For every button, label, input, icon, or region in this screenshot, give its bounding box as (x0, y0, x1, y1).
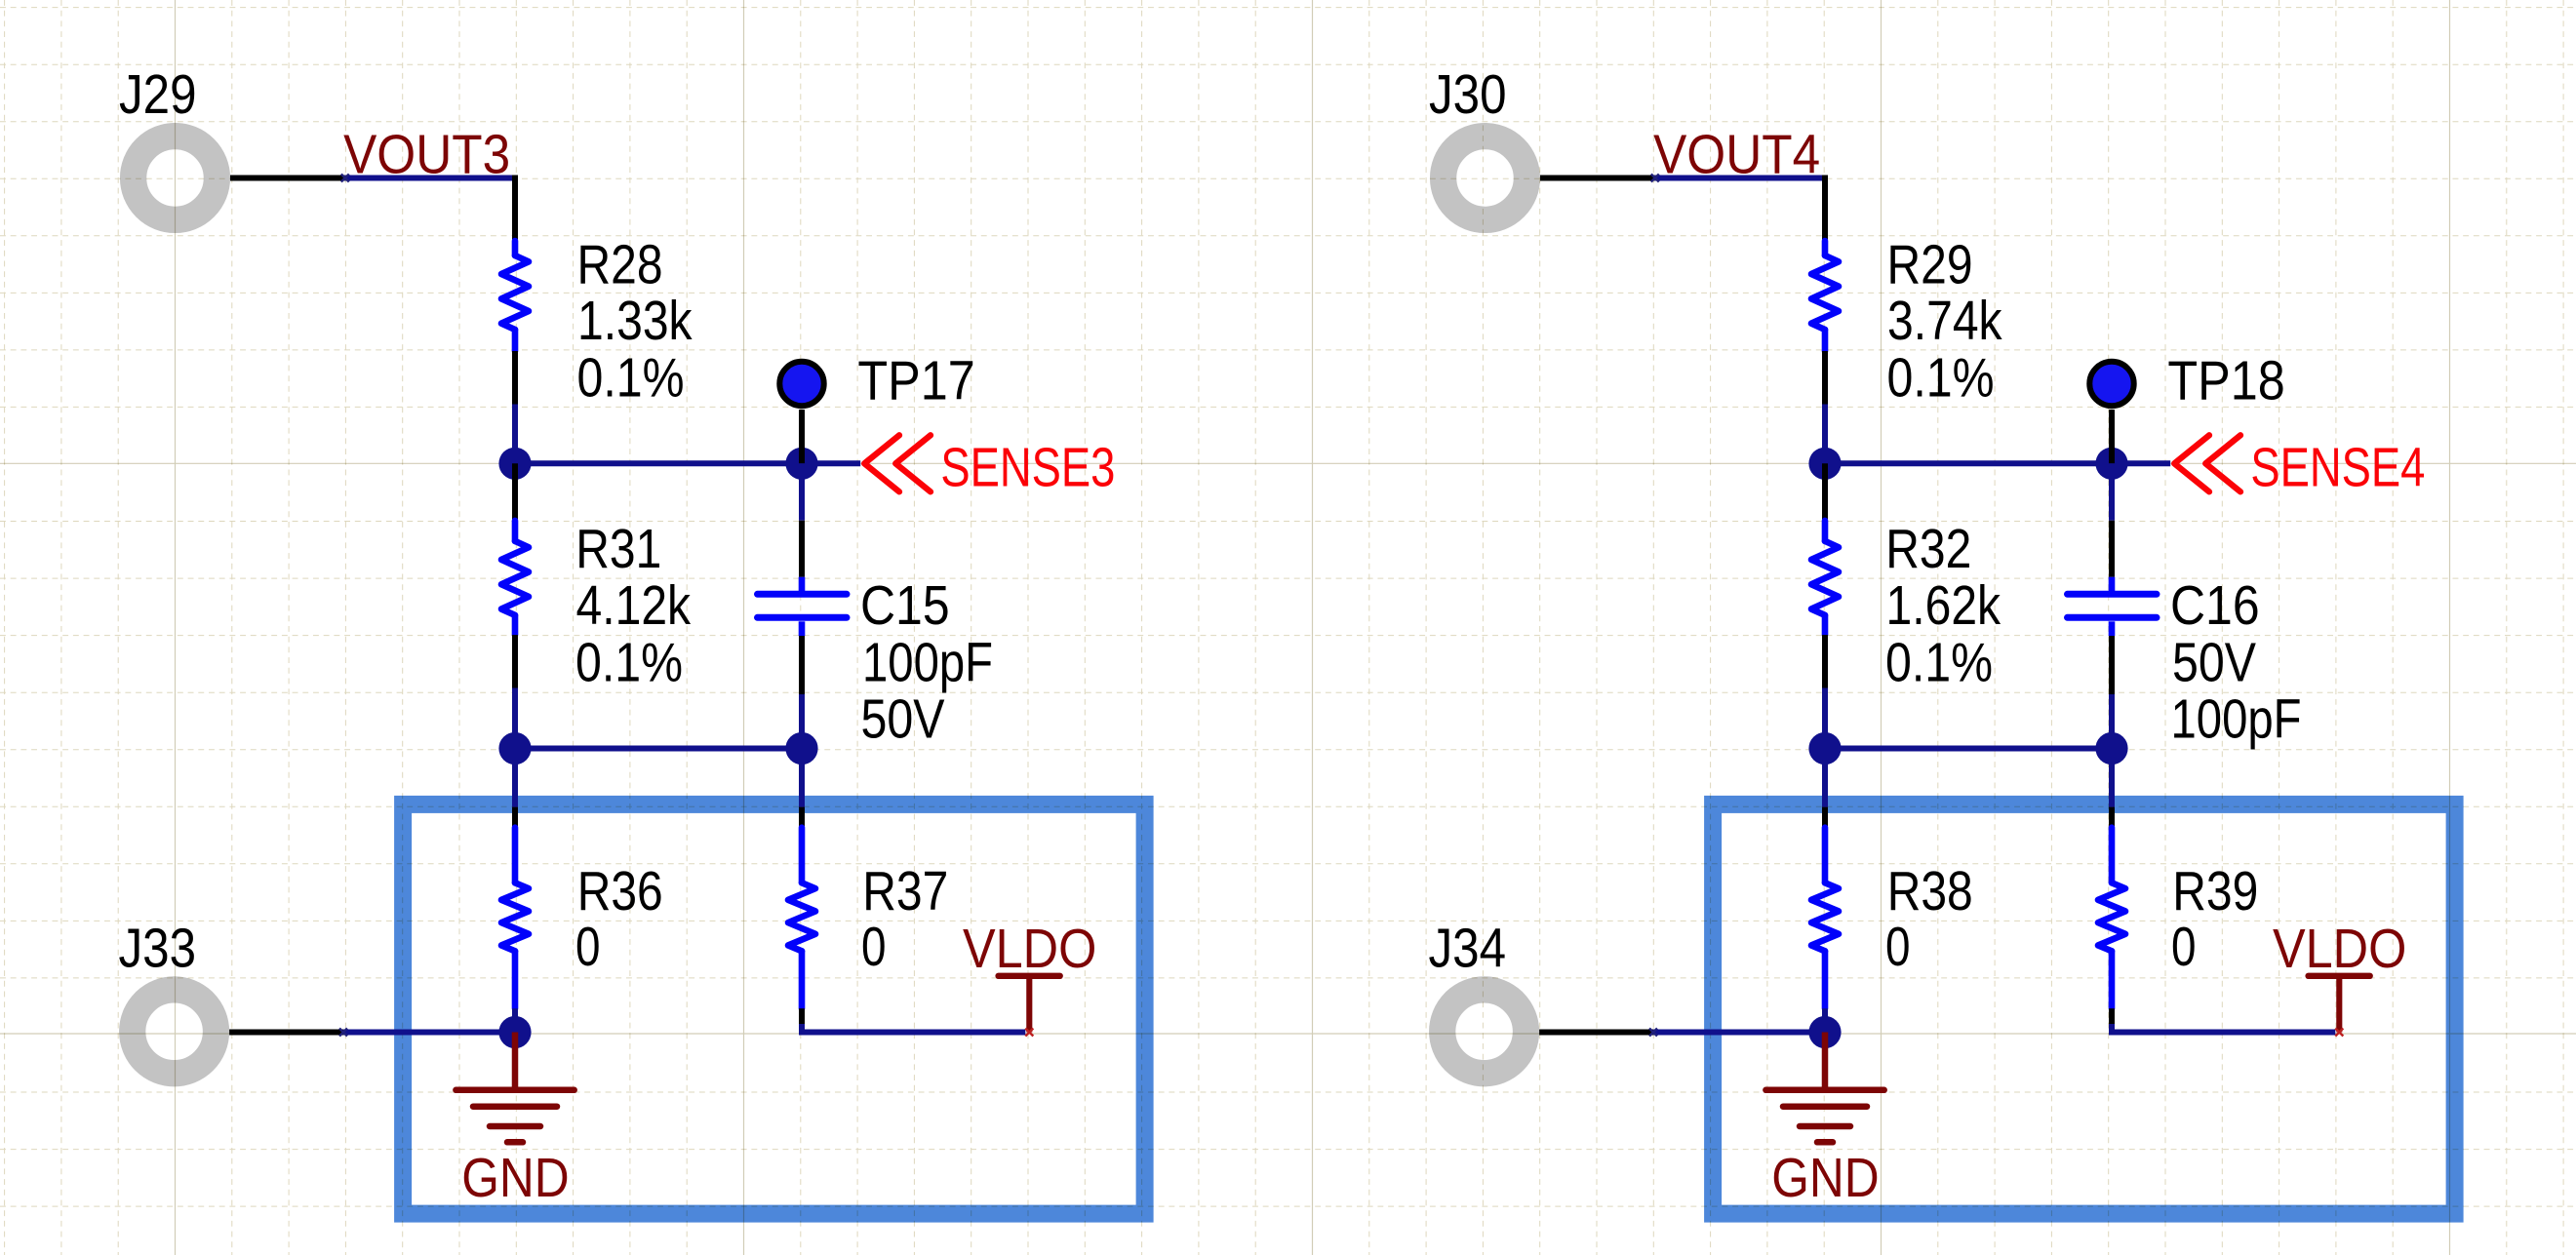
svg-text:100pF: 100pF (862, 632, 993, 693)
svg-text:100pF: 100pF (2171, 687, 2302, 749)
wire net VOUT3 (345, 176, 515, 181)
svg-text:R29: R29 (1887, 234, 1973, 295)
svg-text:1.33k: 1.33k (577, 290, 693, 351)
resistor R39 lead bottom (2109, 951, 2116, 1008)
svg-text:R36: R36 (577, 860, 663, 922)
ground GND bar2 (1783, 1103, 1867, 1110)
resistor R32 lead top (1822, 521, 1829, 541)
test point TP17 (779, 362, 823, 406)
resistor R36 body (501, 882, 529, 951)
connector J34 (1443, 990, 1526, 1074)
wire (1822, 749, 1828, 807)
svg-text:4.12k: 4.12k (576, 574, 692, 636)
wire lower row (1825, 746, 2112, 752)
node junction ground (498, 1016, 531, 1048)
svg-text:GND: GND (1771, 1147, 1879, 1208)
svg-text:TP17: TP17 (857, 350, 974, 412)
wire (799, 463, 805, 521)
power port VLDO bar (999, 973, 1060, 979)
ground GND bar2 (473, 1103, 557, 1110)
resistor R37 lead bottom (799, 951, 806, 1008)
power port VLDO stem (1026, 978, 1032, 1033)
svg-text:0.1%: 0.1% (575, 631, 683, 692)
resistor R37 pin bottom (799, 1008, 805, 1024)
svg-text:C16: C16 (2170, 574, 2260, 636)
ground GND bar4 (507, 1139, 523, 1146)
capacitor C15 plate bottom (758, 614, 848, 621)
resistor R31 pin bottom (512, 635, 518, 688)
resistor R39 lead top (2109, 828, 2116, 883)
pin-end marker (341, 175, 349, 182)
resistor R37 pin top (799, 807, 805, 828)
wire to VLDO (2112, 1024, 2335, 1033)
svg-text:J29: J29 (119, 63, 197, 125)
resistor R32 pin top (1822, 463, 1828, 521)
resistor R37 body (788, 882, 815, 951)
capacitor C15 pin top (799, 521, 805, 577)
connector J30 (1444, 137, 1527, 220)
node junction B2 (2095, 732, 2127, 765)
ground GND stem (512, 1033, 519, 1090)
svg-text:J34: J34 (1429, 918, 1507, 979)
resistor R32 body (1811, 541, 1839, 615)
blanket box power block right (1713, 804, 2455, 1214)
wire corner at VOUT3 (512, 176, 518, 242)
capacitor C16 lead bottom (2109, 621, 2116, 636)
resistor R39 body (2098, 882, 2125, 951)
wire (2109, 694, 2115, 749)
svg-text:SENSE3: SENSE3 (940, 437, 1115, 498)
svg-text:VLDO: VLDO (963, 918, 1096, 979)
svg-text:50V: 50V (861, 687, 945, 749)
resistor R39 pin top (2109, 807, 2115, 828)
capacitor C15 pin bottom (799, 636, 805, 694)
pin of J34 (1539, 1030, 1653, 1036)
svg-text:TP18: TP18 (2167, 350, 2284, 412)
wire (512, 1008, 518, 1032)
connector J29 (134, 137, 218, 220)
svg-text:R38: R38 (1887, 860, 1973, 922)
ground GND bar3 (1800, 1123, 1850, 1130)
port SENSE3 arrow (864, 435, 931, 491)
svg-text:0.1%: 0.1% (1885, 631, 1993, 692)
svg-text:VLDO: VLDO (2273, 918, 2406, 979)
resistor R38 body (1811, 882, 1839, 951)
power port VLDO bar (2309, 973, 2370, 979)
power port VLDO stem (2336, 978, 2342, 1033)
resistor R28 body (501, 255, 529, 330)
capacitor C16 pin bottom (2109, 636, 2115, 694)
capacitor C16 lead top (2109, 577, 2116, 592)
pin-end marker (2335, 1029, 2343, 1037)
svg-text:0: 0 (1885, 916, 1911, 977)
wire (2109, 463, 2115, 521)
wire net VOUT4 (1655, 176, 1825, 181)
node junction B2 (785, 732, 817, 765)
capacitor C15 lead top (799, 577, 806, 592)
resistor R28 pin bottom (512, 351, 518, 405)
svg-text:J30: J30 (1429, 63, 1507, 125)
pin of J30 (1540, 176, 1655, 181)
svg-text:R37: R37 (862, 860, 948, 922)
test point TP17 pin (799, 410, 805, 463)
svg-text:GND: GND (461, 1147, 569, 1208)
port SENSE4 arrow (2174, 435, 2240, 491)
resistor R29 pin bottom (1822, 351, 1828, 405)
wire lower row (515, 746, 802, 752)
pin-end marker (1651, 175, 1659, 182)
resistor R31 lead top (512, 521, 519, 541)
wire to ground node (1653, 1030, 1825, 1036)
ground GND bar1 (1765, 1087, 1883, 1094)
resistor R36 lead top (512, 828, 519, 883)
resistor R31 lead bottom (512, 615, 519, 635)
svg-text:0.1%: 0.1% (1887, 347, 1995, 409)
resistor R32 pin bottom (1822, 635, 1828, 688)
svg-text:J33: J33 (119, 918, 197, 979)
node junction B1 (785, 448, 817, 480)
test point TP18 (2089, 362, 2133, 406)
node junction A1 (498, 448, 531, 480)
resistor R29 body (1811, 255, 1839, 330)
resistor R38 lead top (1822, 828, 1829, 883)
pin of J29 (230, 176, 345, 181)
resistor R36 lead bottom (512, 951, 519, 1008)
svg-text:0: 0 (2171, 916, 2197, 977)
svg-text:0: 0 (575, 916, 601, 977)
wire to ground node (343, 1030, 515, 1036)
svg-text:SENSE4: SENSE4 (2250, 437, 2425, 498)
svg-text:R28: R28 (577, 234, 663, 295)
svg-text:R32: R32 (1885, 518, 1971, 579)
node junction A2 (1808, 732, 1841, 765)
resistor R29 lead top (1822, 241, 1829, 255)
test point TP18 pin (2109, 410, 2115, 463)
resistor R28 lead top (512, 241, 519, 255)
node junction A2 (498, 732, 531, 765)
ground GND stem (1822, 1033, 1829, 1090)
wire (2109, 749, 2115, 807)
wire (1822, 405, 1828, 464)
svg-text:3.74k: 3.74k (1887, 290, 2002, 351)
resistor R36 pin top (512, 807, 518, 828)
pin-end marker (1649, 1029, 1657, 1037)
resistor R28 lead bottom (512, 330, 519, 351)
svg-text:VOUT3: VOUT3 (343, 124, 510, 185)
wire sense row (1825, 460, 2170, 466)
wire corner at VOUT4 (1822, 176, 1828, 242)
resistor R31 pin top (512, 463, 518, 521)
resistor R37 lead top (799, 828, 806, 883)
ground GND bar3 (490, 1123, 540, 1130)
wire to VLDO (802, 1024, 1025, 1033)
wire (512, 688, 518, 749)
wire (799, 694, 805, 749)
resistor R39 pin bottom (2109, 1008, 2115, 1024)
wire (1822, 688, 1828, 749)
svg-text:1.62k: 1.62k (1886, 574, 2001, 636)
svg-text:R39: R39 (2172, 860, 2258, 922)
ground GND bar4 (1817, 1139, 1833, 1146)
connector J33 (133, 990, 217, 1074)
resistor R32 lead bottom (1822, 615, 1829, 635)
blanket box power block left (403, 804, 1145, 1214)
resistor R38 lead bottom (1822, 951, 1829, 1008)
wire (512, 405, 518, 464)
wire sense row (515, 460, 860, 466)
svg-text:C15: C15 (860, 574, 950, 636)
capacitor C15 plate top (758, 591, 848, 598)
capacitor C15 lead bottom (799, 621, 806, 636)
svg-text:50V: 50V (2172, 632, 2256, 693)
svg-text:0.1%: 0.1% (577, 347, 685, 409)
node junction A1 (1808, 448, 1841, 480)
wire (512, 749, 518, 807)
svg-text:R31: R31 (575, 518, 661, 579)
resistor R38 pin top (1822, 807, 1828, 828)
pin-end marker (1025, 1029, 1033, 1037)
node junction ground (1808, 1016, 1841, 1048)
wire (799, 749, 805, 807)
node junction B1 (2095, 448, 2127, 480)
resistor R31 body (501, 541, 529, 615)
ground GND bar1 (456, 1087, 574, 1094)
capacitor C16 plate bottom (2068, 614, 2158, 621)
capacitor C16 pin top (2109, 521, 2115, 577)
pin of J33 (229, 1030, 343, 1036)
pin-end marker (339, 1029, 347, 1037)
capacitor C16 plate top (2068, 591, 2158, 598)
svg-text:0: 0 (861, 916, 887, 977)
resistor R29 lead bottom (1822, 330, 1829, 351)
svg-text:VOUT4: VOUT4 (1653, 124, 1820, 185)
wire (1822, 1008, 1828, 1032)
